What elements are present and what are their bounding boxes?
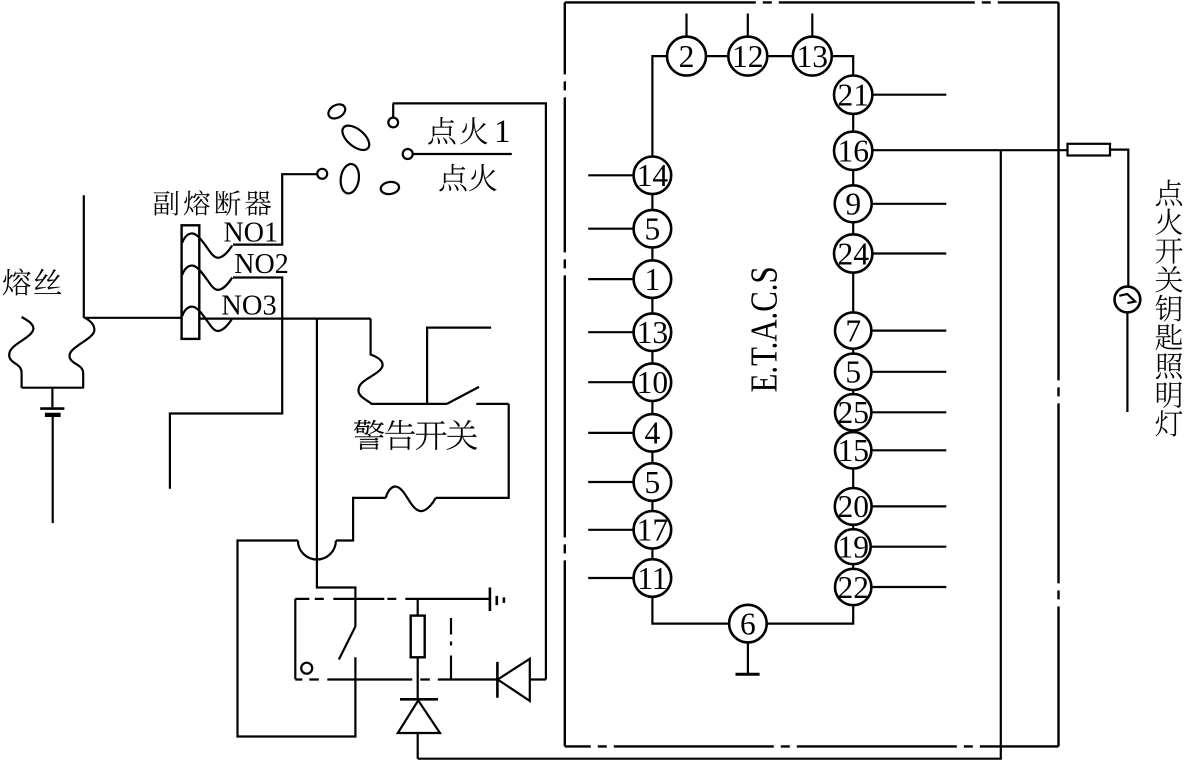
svg-text:4: 4 (645, 416, 661, 451)
wire NO3 bus (199, 318, 370, 320)
pin 14 (left col) (634, 157, 672, 195)
pin 4 (left col) (634, 414, 672, 452)
fusible link (1068, 144, 1111, 156)
label 点火 (439, 164, 466, 191)
wire pin2 to left chain (652, 56, 667, 156)
label 副熔断器 (154, 191, 179, 216)
svg-text:1: 1 (645, 262, 661, 297)
left chain links (651, 194, 653, 559)
svg-text:10: 10 (637, 365, 669, 400)
label 点火 1 (428, 117, 455, 144)
wire NO3 to relay contact (317, 319, 356, 627)
pin 9 (right col) (835, 185, 872, 222)
pin 17 (left col) (634, 511, 672, 549)
ignition switch contact ellipse G (380, 181, 400, 195)
svg-text:20: 20 (837, 489, 869, 524)
wire pin6 to pin22 (767, 605, 853, 623)
wire fusible link to lamp (1110, 150, 1128, 287)
wire pin16 to fusible link (872, 149, 1067, 151)
svg-text:21: 21 (837, 78, 869, 113)
svg-text:9: 9 (845, 187, 861, 222)
sub-fuse element NO3 (182, 307, 232, 331)
wire pin11 to pin6 (652, 597, 729, 624)
wire warning switch to relay net (238, 404, 509, 737)
pin 12 (top) (728, 37, 767, 76)
pin 22 (right col) (835, 569, 871, 605)
left pin stubs (588, 175, 633, 578)
pin 6 (bottom) (729, 605, 767, 643)
relay switch blade (339, 627, 356, 660)
wire NO3 S-curve to warning switch (359, 319, 383, 404)
ignition switch contact ellipse B (338, 121, 373, 155)
diode D1 (497, 659, 546, 701)
ignition switch contact ellipse F (339, 163, 361, 195)
svg-text:2: 2 (679, 39, 695, 74)
pin 21 (right col) (834, 76, 872, 114)
right pin stubs (871, 95, 947, 587)
svg-text:11: 11 (637, 561, 667, 596)
ground (relay) (490, 588, 504, 612)
svg-text:14: 14 (637, 158, 669, 193)
pin top stubs (687, 14, 813, 37)
pin 25 (right col) (835, 394, 871, 430)
sub-fuse element NO2 (182, 266, 232, 290)
sub-fuse box 副熔断器 (182, 225, 200, 339)
pin 7 (right col) (835, 312, 871, 348)
relay terminal (301, 663, 312, 674)
wire NO1 to ignition (233, 174, 317, 244)
ignition terminal 点火 (403, 149, 512, 159)
wire stub to harness (83, 195, 85, 318)
wire pin12-pin13 (767, 55, 793, 57)
sub-fuse element NO1 (182, 233, 232, 257)
pin 11 (left col) (634, 559, 672, 597)
pin 5 (left col) (634, 463, 672, 501)
pin 20 (right col) (835, 488, 872, 525)
resistor R1 (411, 599, 425, 700)
diode D2 (398, 699, 440, 758)
svg-text:17: 17 (637, 513, 669, 548)
label 警告开关 (354, 420, 385, 450)
svg-text:7: 7 (845, 313, 861, 348)
ignition terminal NO1 (317, 169, 327, 179)
pin 24 (right col) (834, 234, 872, 272)
svg-text:13: 13 (637, 315, 669, 350)
pin6 ground stub (736, 643, 760, 675)
svg-text:22: 22 (837, 570, 869, 605)
ETACS unit box (chain line) (565, 2, 1059, 746)
pin 13 (top) (793, 37, 832, 76)
pin 2 (top) (667, 37, 706, 76)
fuse F1 熔丝 (fusible link wavys) (9, 317, 94, 388)
relay link (dash-dot) (450, 599, 452, 680)
wire bottom return to pin16 net (418, 150, 1001, 759)
wire ignition-1 feed (393, 103, 546, 679)
pin 5 (left col) (634, 210, 672, 248)
pin 1 (left col) (634, 260, 672, 298)
pin 19 (right col) (836, 529, 871, 564)
pin 5 (right col) (835, 354, 871, 390)
wire NO3 branch to stub (170, 319, 282, 489)
wire pin13 to right chain (832, 56, 853, 75)
right chain links (852, 114, 854, 569)
svg-text:19: 19 (837, 530, 869, 565)
svg-text:5: 5 (845, 355, 861, 390)
pin 16 (right col) (834, 132, 872, 170)
wire NO2 (233, 278, 282, 319)
pin 10 (left col) (634, 363, 672, 401)
svg-text:12: 12 (732, 39, 764, 74)
svg-text:13: 13 (797, 39, 829, 74)
battery B1 (40, 409, 64, 523)
label 点火开关钥匙照明灯 (1156, 180, 1182, 206)
wire below lamp (1126, 312, 1128, 412)
lamp 点火开关钥匙照明灯 (1115, 287, 1141, 313)
svg-text:5: 5 (645, 212, 661, 247)
svg-text:25: 25 (837, 395, 869, 430)
pin 15 (right col) (835, 432, 871, 468)
label 熔丝 (3, 268, 31, 295)
ignition terminal 点火1 (388, 103, 398, 127)
svg-text:NO3: NO3 (221, 290, 276, 321)
svg-text:E.T.A.C.S: E.T.A.C.S (744, 266, 786, 392)
svg-text:16: 16 (837, 134, 869, 169)
svg-text:24: 24 (837, 236, 869, 271)
ignition switch contact ellipse A (326, 101, 348, 121)
svg-text:1: 1 (494, 114, 511, 150)
svg-text:NO2: NO2 (234, 249, 288, 280)
svg-text:6: 6 (740, 606, 756, 641)
relay box (295, 599, 497, 680)
wire pin2-pin12 (706, 55, 728, 57)
warning switch 警告开关 (371, 328, 509, 404)
wire battery link (51, 388, 53, 408)
pin 13 (left col) (634, 313, 672, 351)
wire bus to sub-fuse (84, 317, 182, 319)
svg-text:5: 5 (645, 465, 661, 500)
svg-text:15: 15 (837, 433, 869, 468)
